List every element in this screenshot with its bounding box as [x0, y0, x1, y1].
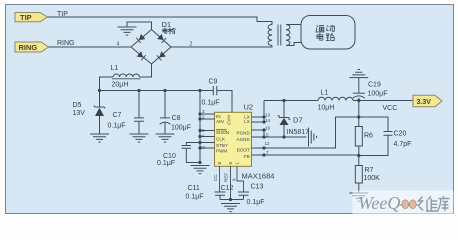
transformer core — [278, 25, 281, 46]
node dot rail-bus — [198, 89, 201, 92]
svg-text:STBY: STBY — [216, 143, 228, 148]
svg-text:AGND: AGND — [237, 137, 251, 142]
node dot LX2 — [262, 120, 265, 123]
svg-text:RING: RING — [57, 40, 75, 47]
ground (sideways, AGND) — [309, 128, 317, 147]
svg-text:MAX1684: MAX1684 — [242, 172, 275, 181]
svg-text:D5: D5 — [73, 102, 82, 109]
label 电路 — [317, 33, 334, 40]
bridge diode top-right — [157, 34, 166, 43]
node dot bus-PWM — [198, 146, 201, 149]
capacitor C19 — [353, 78, 365, 101]
ground (D5) — [90, 134, 109, 142]
svg-text:RING: RING — [19, 43, 38, 52]
svg-text:PGND: PGND — [237, 131, 251, 136]
diode D7 IN5817 — [278, 101, 291, 138]
svg-text:C19: C19 — [368, 82, 381, 89]
inductor L1 10uH — [318, 97, 353, 100]
svg-text:0.1μF: 0.1μF — [157, 160, 175, 167]
node dot cap common — [229, 198, 232, 201]
capacitor C7 — [134, 91, 144, 134]
svg-text:4: 4 — [202, 134, 205, 139]
node dot bus-CLK — [198, 135, 201, 138]
node dot PGND — [262, 128, 265, 131]
svg-text:0.1μF: 0.1μF — [108, 123, 126, 130]
svg-text:WeeQ: WeeQ — [358, 193, 400, 213]
node dot bus-AIN — [198, 117, 201, 120]
wire secondary to circuit box — [286, 25, 301, 46]
node dot BOOT/C20 tap — [357, 115, 360, 118]
ground (R7) — [349, 193, 368, 201]
svg-text:2: 2 — [202, 114, 205, 119]
ground (C8) — [156, 134, 175, 142]
svg-text:D1: D1 — [162, 20, 172, 29]
node dot FB junction — [357, 154, 360, 157]
pin stubs right — [252, 117, 265, 137]
svg-text:VCC: VCC — [383, 105, 398, 112]
transformer T1 primary — [268, 25, 272, 46]
svg-text:7: 7 — [266, 150, 269, 155]
wire PGND/AGND to ground — [264, 130, 307, 137]
zener D5 13V — [94, 91, 106, 134]
node dot LX1 — [262, 115, 265, 118]
box 通讯电路 (communication circuit) — [301, 16, 355, 50]
svg-text:15: 15 — [200, 128, 206, 133]
svg-text:8: 8 — [217, 162, 222, 165]
svg-text:CVH: CVH — [227, 115, 232, 125]
svg-text:TIP: TIP — [20, 13, 32, 22]
svg-text:C12: C12 — [221, 185, 234, 192]
svg-text:L1: L1 — [321, 90, 329, 97]
svg-text:CLK: CLK — [216, 137, 226, 142]
capacitor C12 — [215, 192, 226, 200]
svg-text:PWM: PWM — [216, 148, 227, 153]
svg-text:4: 4 — [117, 42, 120, 48]
svg-text:10: 10 — [200, 145, 206, 150]
resistor R7 — [355, 166, 362, 184]
ground (bus) — [191, 166, 210, 174]
pin stubs left — [200, 114, 215, 148]
svg-text:14: 14 — [265, 118, 271, 123]
wire TIP to transformer — [48, 17, 273, 25]
node dot bus-IN — [198, 112, 201, 115]
svg-text:3: 3 — [202, 109, 205, 114]
svg-text:100μF: 100μF — [171, 125, 191, 132]
label 通讯 — [316, 25, 335, 32]
bridge D1 diamond — [131, 30, 171, 65]
node dot D7 bottom — [282, 135, 285, 138]
svg-text:C8: C8 — [172, 115, 181, 122]
ground (C7) — [130, 134, 149, 142]
bridge diode bottom-right — [157, 51, 166, 60]
svg-text:L1: L1 — [111, 65, 119, 72]
capacitor C8 — [160, 91, 171, 134]
wire R6/R7 column — [358, 101, 360, 194]
capacitor C10 — [182, 143, 201, 163]
svg-text:C20: C20 — [394, 131, 407, 138]
node dot rail-L1/D5 — [98, 89, 101, 92]
tag RING — [15, 42, 49, 52]
node dot C19/R6 — [357, 99, 360, 102]
tag 3.3V — [413, 95, 442, 107]
capacitor C13 — [238, 192, 249, 200]
wire LX rail to L1(10uH) — [264, 100, 318, 102]
svg-text:C11: C11 — [188, 185, 200, 192]
svg-text:SHDN: SHDN — [216, 130, 229, 135]
node dot bus-STBY — [198, 141, 201, 144]
svg-text:20μH: 20μH — [112, 82, 129, 89]
node dot FB stub — [262, 153, 265, 156]
svg-text:1: 1 — [235, 162, 240, 165]
svg-text:C7: C7 — [113, 112, 122, 119]
svg-text:C10: C10 — [163, 153, 176, 160]
svg-text:13: 13 — [265, 113, 271, 118]
node dot bus-SHDN — [198, 129, 201, 132]
node dot bus-C10 — [198, 161, 201, 164]
svg-text:FB: FB — [244, 154, 250, 159]
svg-text:12: 12 — [265, 141, 271, 146]
svg-text:C9: C9 — [209, 79, 218, 86]
svg-text:0.1μF: 0.1μF — [186, 194, 204, 201]
bridge diode bottom-left — [137, 51, 146, 60]
wire output rail — [353, 100, 413, 102]
wire FB net — [252, 154, 359, 156]
wire RING to bridge — [49, 46, 132, 48]
label 电桥 — [163, 28, 176, 34]
svg-text:13V: 13V — [73, 110, 86, 117]
svg-text:9: 9 — [232, 178, 237, 181]
svg-text:3.3V: 3.3V — [417, 99, 432, 106]
svg-text:REF: REF — [224, 173, 229, 182]
wire LX join — [263, 101, 265, 123]
inductor L1 20uH — [100, 64, 152, 91]
IC bottom pin stubs — [220, 166, 244, 199]
svg-text:100K: 100K — [364, 175, 381, 182]
svg-text:IN5817: IN5817 — [287, 129, 310, 136]
wire bridge top to ground — [127, 22, 152, 30]
ground (C12/C13) — [221, 204, 240, 212]
svg-text:LX: LX — [244, 119, 250, 124]
wire bridge right to transformer — [171, 46, 272, 48]
svg-text:10μH: 10μH — [318, 105, 335, 112]
capacitor C20 — [359, 117, 393, 156]
svg-text:4.7pF: 4.7pF — [394, 141, 412, 148]
wire left pin bus — [199, 91, 201, 163]
ground (bridge) — [118, 27, 137, 35]
svg-text:R6: R6 — [364, 133, 373, 140]
svg-text:0.1μF: 0.1μF — [247, 199, 265, 206]
bridge diode top-left — [136, 34, 145, 43]
transformer T1 secondary — [286, 25, 290, 46]
svg-text:0.1μF: 0.1μF — [202, 100, 220, 107]
node dot BOOT stub — [262, 146, 265, 149]
IC U2 MAX1684 body — [215, 112, 252, 166]
svg-text:D7: D7 — [293, 116, 303, 125]
svg-text:C13: C13 — [251, 184, 264, 191]
tag TIP — [15, 13, 48, 23]
node dot AGND — [262, 135, 265, 138]
node dot D7 top — [282, 99, 285, 102]
watermark 维库 — [418, 196, 450, 211]
resistor R6 — [355, 127, 362, 147]
capacitor C9 — [200, 86, 232, 112]
wire BOOT net — [252, 117, 359, 148]
svg-text:AIN: AIN — [216, 119, 224, 124]
wire cap common — [220, 199, 244, 201]
svg-text:6: 6 — [228, 162, 233, 165]
svg-text:16: 16 — [265, 126, 271, 131]
svg-text:100μF: 100μF — [368, 91, 388, 98]
node dot rail-C8 — [163, 89, 166, 92]
ground (inverted, C19) — [349, 70, 368, 78]
svg-text:R7: R7 — [365, 167, 374, 174]
svg-text:CC: CC — [213, 174, 218, 181]
wire main input rail — [100, 90, 201, 92]
svg-text:U2: U2 — [244, 103, 254, 112]
watermark box — [353, 191, 454, 215]
svg-text:BOOT: BOOT — [237, 148, 250, 153]
node dot rail-C7 — [137, 89, 140, 92]
